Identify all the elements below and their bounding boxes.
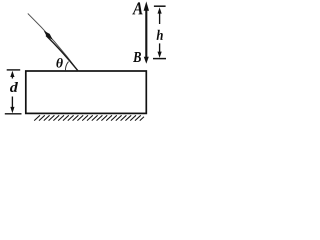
h dim lower arrow (points down to bottom tick) <box>159 43 161 54</box>
up arrowhead at A end <box>144 1 149 10</box>
incoming trajectory line (upper faint part) <box>28 14 79 72</box>
down arrowhead at B end <box>144 57 149 64</box>
ground hatching <box>34 115 144 120</box>
d dimension top tick <box>7 69 21 71</box>
d dim lower arrow (points down to bottom tick) <box>11 97 13 110</box>
label d <box>10 82 18 92</box>
d dimension bottom tick <box>5 113 22 115</box>
h dimension bottom tick <box>153 58 166 60</box>
label h <box>157 30 163 40</box>
label A <box>132 2 142 14</box>
trajectory arrowhead (spindle on line, pointing down-right) <box>44 31 53 40</box>
incoming trajectory line (lower dark part) <box>46 36 78 72</box>
h dim upper arrow (points up to tick) <box>159 11 161 24</box>
vertical line B to A <box>145 8 147 57</box>
block (rectangle body) <box>26 71 147 113</box>
angle arc <box>65 62 68 71</box>
h dimension top tick <box>154 5 166 7</box>
angle label theta <box>56 58 62 68</box>
label B <box>133 52 141 62</box>
d dim upper arrow (points up to tick) <box>11 74 13 79</box>
